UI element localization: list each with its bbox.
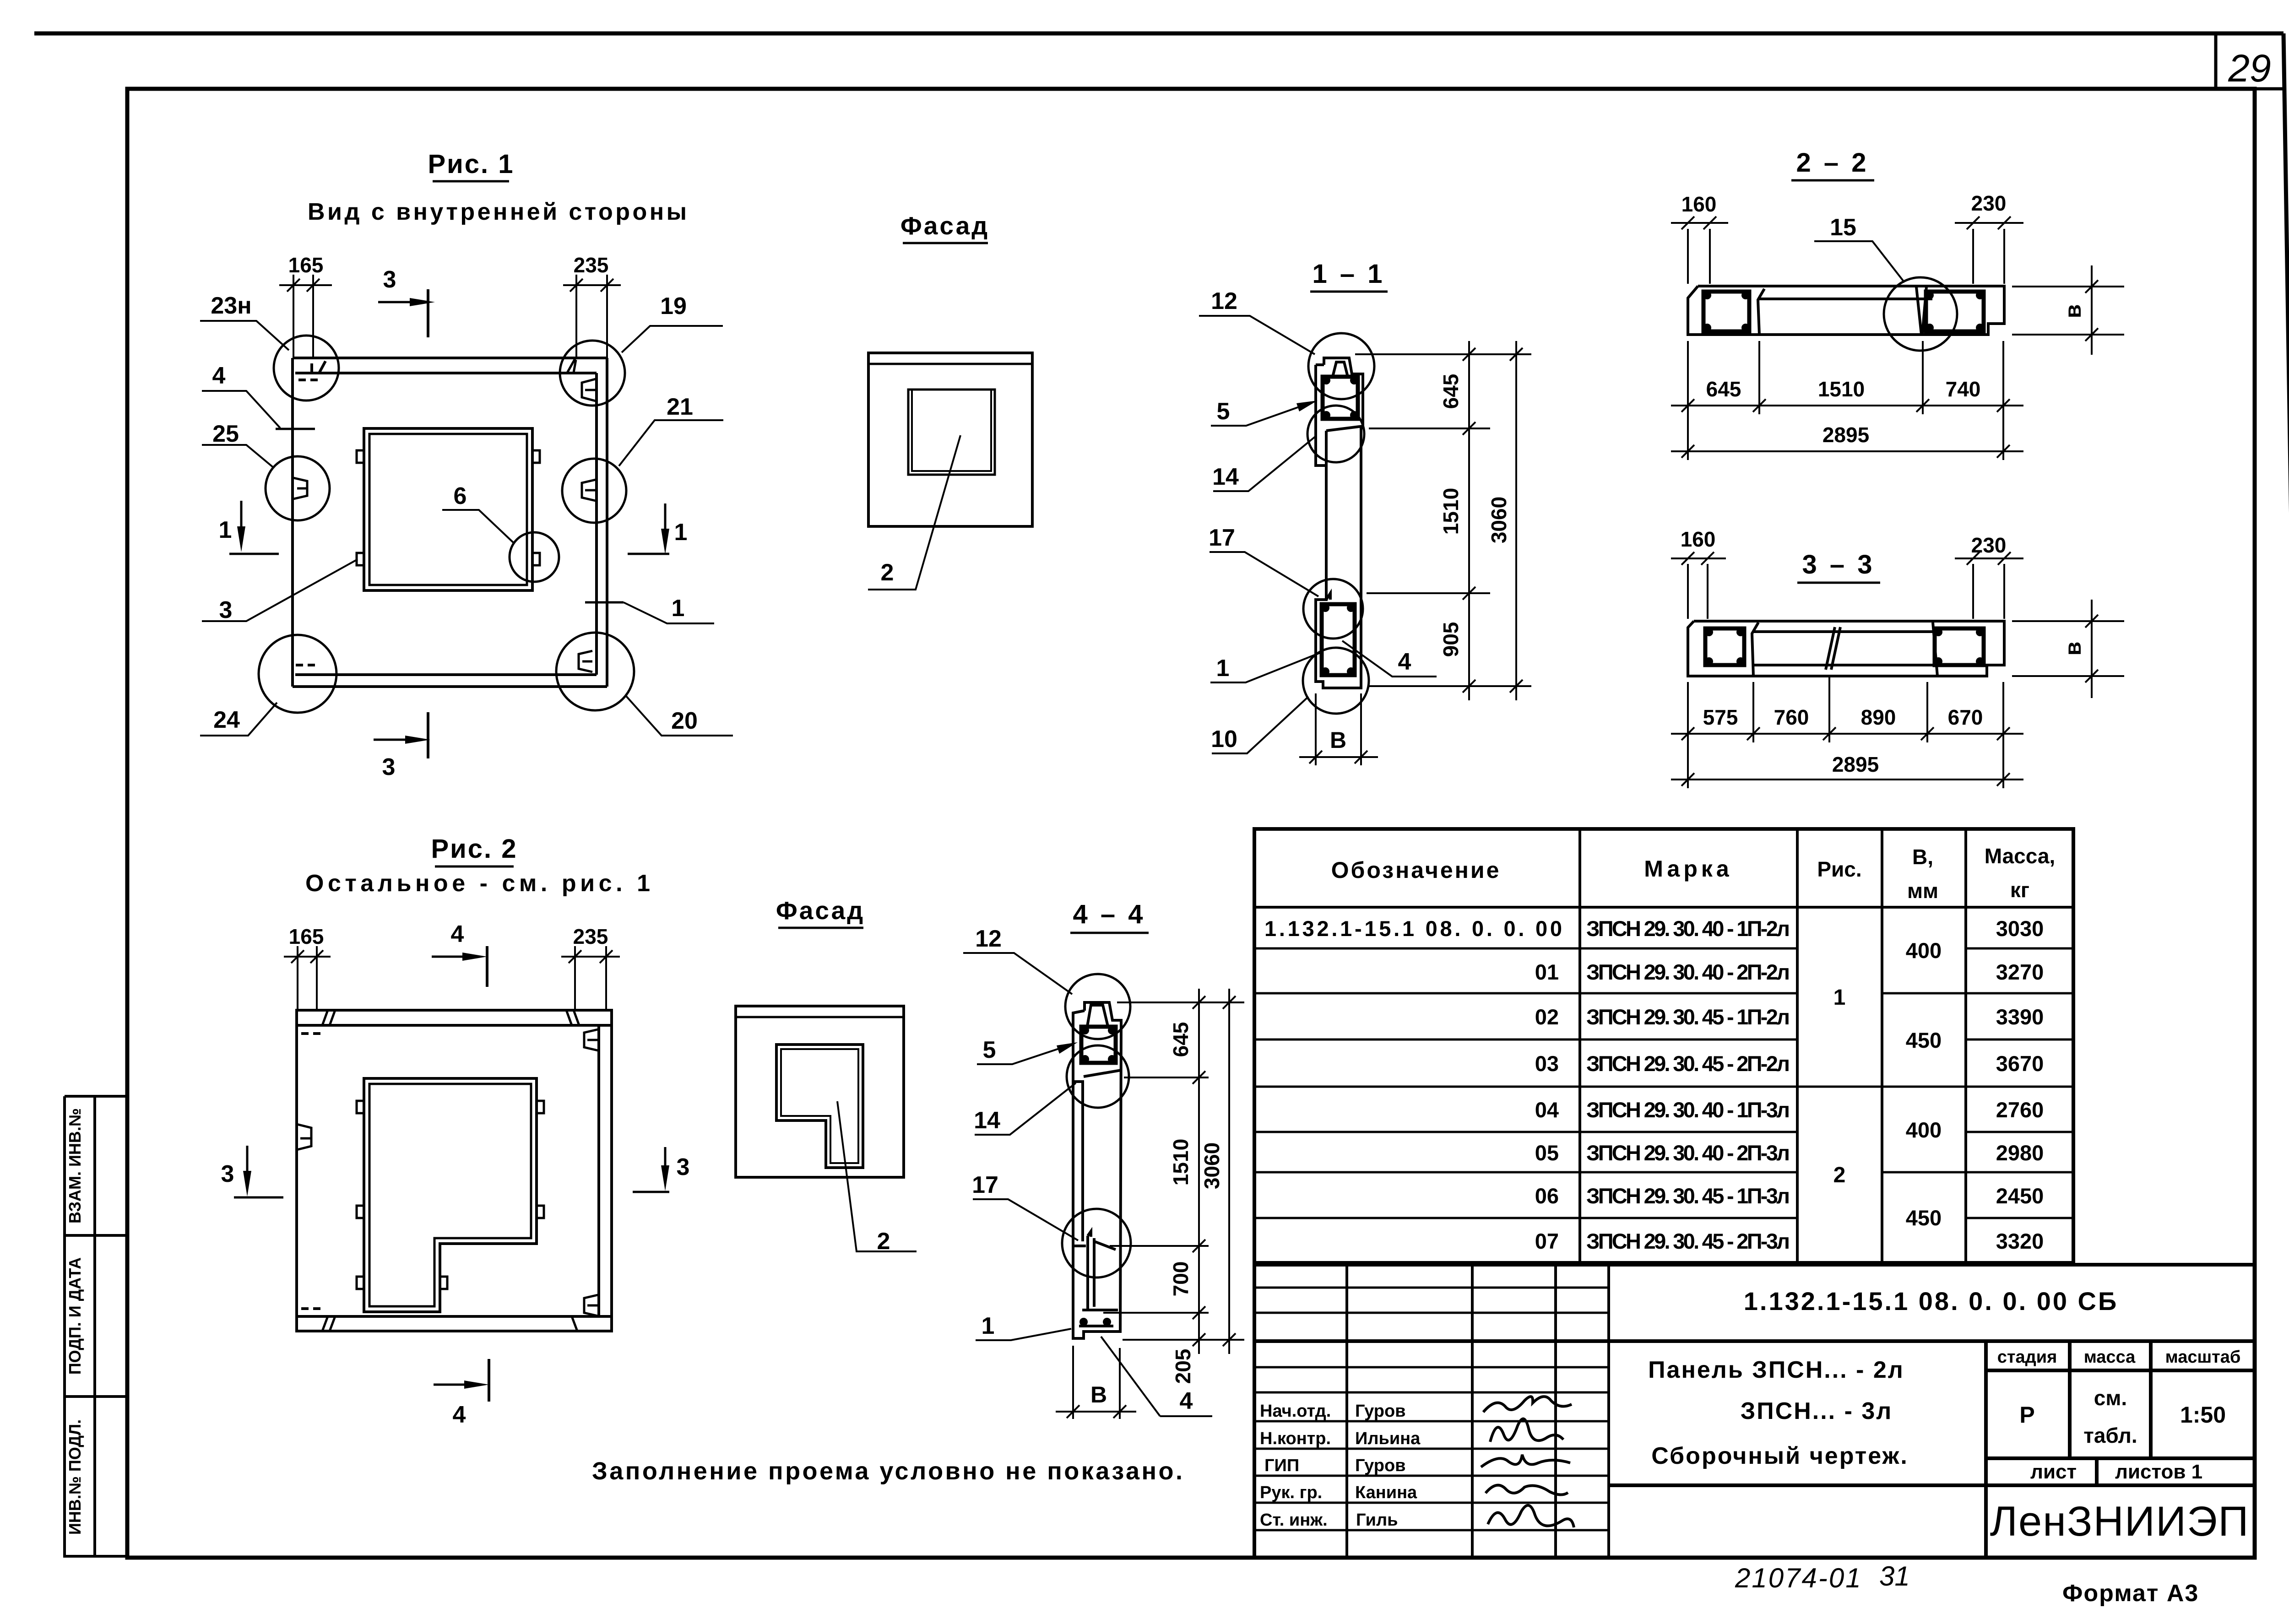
svg-text:230: 230 <box>1971 191 2007 215</box>
svg-text:700: 700 <box>1169 1261 1193 1297</box>
svg-text:В: В <box>1330 727 1346 753</box>
sheet number box <box>2216 33 2284 90</box>
fig1 bracket top-right <box>582 379 596 401</box>
table column lines <box>1254 829 2073 1263</box>
svg-text:04: 04 <box>1535 1098 1559 1122</box>
svg-text:19: 19 <box>660 293 687 319</box>
svg-text:3: 3 <box>221 1161 234 1187</box>
4-4 rebar cage <box>1081 1027 1116 1063</box>
svg-text:2760: 2760 <box>1996 1098 2044 1122</box>
svg-text:4: 4 <box>212 363 226 389</box>
fig1 dim 235 <box>563 275 621 358</box>
fig1 detail circle top-left <box>274 336 339 401</box>
2-2 lower dims <box>1671 341 2023 460</box>
fig2 bracket bottom-right <box>584 1295 598 1316</box>
title block left grid verticals <box>1347 1265 1609 1558</box>
2-2 dim 160 top <box>1671 217 1728 284</box>
svg-text:2 – 2: 2 – 2 <box>1796 148 1869 178</box>
fig1 corner weld marks top-right <box>567 359 576 374</box>
3-3 lower dims <box>1671 677 2023 788</box>
2-2 left rebar cage <box>1703 292 1749 331</box>
svg-text:ГИП: ГИП <box>1264 1456 1299 1475</box>
svg-text:23н: 23н <box>211 292 251 319</box>
3-3 left rebar cage <box>1705 628 1744 665</box>
1-1 detail circle upper-mid <box>1307 406 1364 462</box>
svg-text:17: 17 <box>972 1172 998 1198</box>
svg-text:15: 15 <box>1830 214 1856 241</box>
svg-text:3390: 3390 <box>1996 1005 2044 1029</box>
1-1 dim line inner <box>1468 341 1470 700</box>
page top edge <box>34 32 2284 36</box>
svg-text:3: 3 <box>382 754 396 780</box>
svg-text:стадия: стадия <box>1997 1348 2057 1367</box>
svg-text:Ст. инж.: Ст. инж. <box>1260 1510 1328 1530</box>
svg-text:2980: 2980 <box>1996 1141 2044 1165</box>
svg-text:760: 760 <box>1774 705 1809 729</box>
svg-text:3270: 3270 <box>1996 960 2044 984</box>
2-2 detail circle 15 <box>1884 277 1957 351</box>
fig1 bracket bottom-right <box>579 651 592 672</box>
2-2 dim в right <box>2012 265 2124 355</box>
fig2 dim 235 <box>561 946 620 1010</box>
1-1 dim В bottom <box>1299 693 1378 765</box>
svg-text:Фасад: Фасад <box>900 211 989 240</box>
svg-text:Гуров: Гуров <box>1355 1402 1406 1421</box>
fig1 detail circle mid-right <box>562 459 626 523</box>
signature 5 <box>1488 1505 1574 1527</box>
svg-text:1:50: 1:50 <box>2180 1402 2226 1428</box>
1-1 detail circle bottom <box>1303 648 1369 714</box>
fig1 dim 165 <box>279 275 332 358</box>
svg-text:890: 890 <box>1861 705 1896 729</box>
title block left grid horizontals <box>1254 1288 1609 1530</box>
fig2 L-shaped opening <box>364 1078 537 1312</box>
svg-text:5: 5 <box>983 1037 996 1063</box>
svg-text:1: 1 <box>672 595 685 622</box>
4-4 dim В bottom <box>1056 1346 1136 1419</box>
svg-text:12: 12 <box>1211 288 1237 314</box>
svg-text:3 – 3: 3 – 3 <box>1802 550 1875 579</box>
svg-text:ЗПСН 29. 30. 45 - 2П-2л: ЗПСН 29. 30. 45 - 2П-2л <box>1586 1051 1790 1076</box>
fig2 dim 165 <box>284 946 331 1010</box>
svg-text:ИНВ.№ ПОДЛ.: ИНВ.№ ПОДЛ. <box>65 1419 84 1535</box>
svg-text:01: 01 <box>1535 960 1559 984</box>
1-1 upper rebar cage <box>1323 377 1358 419</box>
svg-text:1: 1 <box>1833 985 1846 1010</box>
svg-text:4: 4 <box>1398 649 1411 675</box>
svg-text:450: 450 <box>1906 1206 1942 1230</box>
2-2 right rebar cage <box>1926 292 1984 331</box>
svg-text:5: 5 <box>1217 398 1230 425</box>
svg-text:Панель ЗПСН... - 2л: Панель ЗПСН... - 2л <box>1648 1357 1904 1383</box>
svg-text:235: 235 <box>574 253 609 277</box>
svg-text:21: 21 <box>667 394 693 420</box>
fig1 bracket mid-right <box>582 480 596 501</box>
svg-text:3060: 3060 <box>1487 497 1511 543</box>
fig1 bracket mid-left <box>293 478 307 499</box>
svg-text:ПОДП. И ДАТА: ПОДП. И ДАТА <box>65 1257 84 1375</box>
svg-text:1510: 1510 <box>1818 377 1865 401</box>
svg-text:Сборочный чертеж.: Сборочный чертеж. <box>1651 1443 1909 1469</box>
svg-text:ЗПСН 29. 30. 40 - 1П-2л: ЗПСН 29. 30. 40 - 1П-2л <box>1586 916 1790 941</box>
2-2 dim 230 top <box>1955 217 2023 284</box>
fig1 detail circle bottom-left <box>259 635 336 713</box>
signature 2 <box>1490 1419 1563 1442</box>
svg-text:ЗПСН 29. 30. 40 - 2П-2л: ЗПСН 29. 30. 40 - 2П-2л <box>1586 960 1790 984</box>
svg-text:160: 160 <box>1681 192 1717 216</box>
fig2 opening tabs left <box>357 1101 364 1113</box>
svg-text:4: 4 <box>451 921 464 947</box>
svg-text:Вид с внутренней стороны: Вид с внутренней стороны <box>308 199 687 225</box>
fig1 opening tab left-bottom <box>357 553 364 565</box>
3-3 body outline <box>1688 621 2004 676</box>
left stamp column <box>65 1096 127 1558</box>
svg-text:06: 06 <box>1535 1184 1559 1208</box>
svg-text:6: 6 <box>454 483 467 509</box>
svg-text:2895: 2895 <box>1832 752 1879 776</box>
svg-text:230: 230 <box>1971 533 2007 557</box>
svg-text:табл.: табл. <box>2083 1424 2137 1447</box>
4-4 foot rebar dots <box>1079 1318 1088 1326</box>
fig1 detail circle tab-6 <box>510 532 559 582</box>
svg-text:2895: 2895 <box>1823 423 1869 447</box>
svg-text:3: 3 <box>677 1154 690 1180</box>
svg-text:165: 165 <box>289 925 324 948</box>
svg-text:12: 12 <box>975 926 1002 952</box>
fig1 opening tab right-bottom <box>532 553 540 565</box>
svg-text:1510: 1510 <box>1439 488 1463 535</box>
svg-text:Гуров: Гуров <box>1355 1456 1406 1475</box>
fig1 detail circle mid-left <box>266 456 330 520</box>
svg-text:в: в <box>2060 642 2086 656</box>
svg-text:25: 25 <box>212 421 239 447</box>
svg-text:575: 575 <box>1703 705 1738 729</box>
fig2 bottom chamfer marks <box>322 1316 577 1331</box>
svg-text:1: 1 <box>219 517 232 543</box>
svg-text:В: В <box>1090 1382 1107 1407</box>
svg-text:1510: 1510 <box>1169 1139 1193 1186</box>
svg-text:лист: лист <box>2030 1461 2077 1483</box>
svg-text:Марка: Марка <box>1644 856 1732 882</box>
table border <box>1254 829 2073 1263</box>
svg-text:мм: мм <box>1907 879 1938 903</box>
fig2 dashed mark top-left <box>301 1032 320 1035</box>
fig2 top chamfer marks <box>322 1010 579 1025</box>
svg-text:масса: масса <box>2084 1348 2136 1367</box>
svg-text:Рис.: Рис. <box>1817 857 1861 881</box>
svg-text:20: 20 <box>671 708 698 734</box>
svg-text:1.132.1-15.1 08. 0. 0. 00 СБ: 1.132.1-15.1 08. 0. 0. 00 СБ <box>1744 1287 2119 1315</box>
svg-text:450: 450 <box>1906 1028 1942 1052</box>
svg-text:Гиль: Гиль <box>1356 1510 1398 1530</box>
svg-text:ЗПСН 29. 30. 40 - 2П-3л: ЗПСН 29. 30. 40 - 2П-3л <box>1586 1141 1790 1165</box>
fig1 dashed mark bottom-left <box>296 664 315 666</box>
svg-text:165: 165 <box>288 253 324 277</box>
svg-text:31: 31 <box>1879 1561 1910 1592</box>
svg-text:07: 07 <box>1535 1229 1559 1253</box>
1-1 detail circle top <box>1308 333 1374 399</box>
facade2 panel <box>736 1006 904 1177</box>
svg-text:03: 03 <box>1535 1051 1559 1076</box>
svg-text:3320: 3320 <box>1996 1229 2044 1253</box>
svg-text:ЗПСН 29. 30. 40 - 1П-3л: ЗПСН 29. 30. 40 - 1П-3л <box>1586 1098 1790 1122</box>
svg-text:1: 1 <box>1216 655 1230 682</box>
3-3 right rebar cage <box>1935 628 1984 665</box>
svg-text:21074-01: 21074-01 <box>1735 1563 1862 1593</box>
svg-text:4: 4 <box>1180 1388 1193 1414</box>
1-1 lower rebar cage <box>1322 604 1355 675</box>
svg-text:14: 14 <box>1212 464 1239 490</box>
svg-text:02: 02 <box>1535 1005 1559 1029</box>
fig2 dashed mark bottom-left <box>301 1307 320 1310</box>
fig2 bracket top-right <box>584 1029 598 1050</box>
спан lines <box>1797 1086 1882 1088</box>
svg-text:Н.контр.: Н.контр. <box>1260 1429 1331 1448</box>
svg-text:3: 3 <box>219 597 233 623</box>
1-1 detail circle lower-mid <box>1303 579 1363 639</box>
4-4 hat trapezoid <box>1087 1005 1108 1026</box>
svg-text:3670: 3670 <box>1996 1051 2044 1076</box>
svg-text:400: 400 <box>1906 938 1942 963</box>
svg-text:кг: кг <box>2010 878 2029 902</box>
svg-text:24: 24 <box>213 707 240 733</box>
svg-text:4: 4 <box>453 1402 466 1428</box>
title block main dividers <box>1254 1341 2255 1558</box>
svg-text:Ильина: Ильина <box>1355 1429 1421 1448</box>
svg-text:29: 29 <box>2228 47 2271 90</box>
svg-text:14: 14 <box>974 1107 1000 1134</box>
1-1 hat trapezoid <box>1333 362 1348 377</box>
svg-text:2: 2 <box>1833 1163 1846 1187</box>
svg-text:ЗПСН... - 3л: ЗПСН... - 3л <box>1741 1398 1893 1424</box>
fig2 opening tabs right <box>537 1101 544 1113</box>
svg-text:400: 400 <box>1906 1118 1942 1142</box>
4-4 extension lines <box>1103 989 1244 1354</box>
svg-text:Р: Р <box>2019 1402 2034 1428</box>
4-4 detail circle mid <box>1067 1045 1129 1108</box>
3-3 dim 160 top <box>1671 552 1726 619</box>
svg-text:740: 740 <box>1946 377 1981 401</box>
svg-text:ВЗАМ. ИНВ.№: ВЗАМ. ИНВ.№ <box>65 1108 84 1223</box>
svg-text:Рис. 2: Рис. 2 <box>431 834 517 864</box>
4-4 body outline <box>1073 1002 1121 1338</box>
svg-text:905: 905 <box>1439 622 1463 657</box>
signature 1 <box>1483 1397 1572 1412</box>
svg-text:В,: В, <box>1912 845 1933 869</box>
svg-text:160: 160 <box>1681 527 1716 551</box>
svg-text:ЗПСН 29. 30. 45 - 1П-2л: ЗПСН 29. 30. 45 - 1П-2л <box>1586 1005 1790 1029</box>
svg-text:1 – 1: 1 – 1 <box>1313 259 1385 289</box>
page right edge <box>2284 33 2289 1604</box>
fig2 left anchor tab <box>297 1124 311 1150</box>
svg-text:Нач.отд.: Нач.отд. <box>1260 1402 1331 1421</box>
svg-text:листов 1: листов 1 <box>2115 1461 2202 1483</box>
svg-text:Рис. 1: Рис. 1 <box>428 149 514 179</box>
fig1 central opening <box>364 428 532 590</box>
table row lines col1+col2+col5 <box>1254 948 2073 1218</box>
1-1 body outline <box>1316 358 1363 688</box>
fig1 corner weld marks top-left <box>312 361 325 373</box>
svg-text:2450: 2450 <box>1996 1184 2044 1208</box>
1-1 dim line outer 3060 <box>1515 341 1517 700</box>
4-4 detail circle low <box>1062 1209 1131 1278</box>
svg-text:см.: см. <box>2094 1386 2127 1410</box>
svg-text:масштаб: масштаб <box>2165 1348 2241 1367</box>
signature 4 <box>1486 1485 1568 1495</box>
fig2 panel outline <box>297 1010 612 1331</box>
svg-text:ЗПСН 29. 30. 45 - 2П-3л: ЗПСН 29. 30. 45 - 2П-3л <box>1586 1229 1790 1253</box>
svg-text:Обозначение: Обозначение <box>1331 857 1501 883</box>
svg-text:645: 645 <box>1169 1022 1193 1057</box>
svg-text:205: 205 <box>1171 1349 1195 1384</box>
svg-text:1: 1 <box>982 1313 995 1339</box>
4-4 detail circle top <box>1065 974 1130 1039</box>
svg-text:645: 645 <box>1439 374 1463 409</box>
fig1 detail circle bottom-right <box>556 633 634 710</box>
svg-text:2: 2 <box>881 559 894 586</box>
facade1 opening <box>908 390 995 475</box>
2-2 body outline <box>1688 286 2004 335</box>
svg-text:645: 645 <box>1706 377 1741 401</box>
fig1 opening tab left-top <box>357 450 364 463</box>
title block frame <box>1254 1265 2255 1558</box>
fig1 dashed mark top-left <box>298 379 318 381</box>
svg-text:ЛенЗНИИЭП: ЛенЗНИИЭП <box>1990 1498 2250 1545</box>
svg-text:3060: 3060 <box>1200 1142 1224 1189</box>
1-1 extension lines <box>1355 341 1531 700</box>
svg-text:235: 235 <box>573 925 608 948</box>
fig1 detail circle top-right <box>560 341 625 406</box>
svg-text:3: 3 <box>383 266 396 293</box>
facade2 L opening <box>776 1045 863 1168</box>
svg-text:10: 10 <box>1211 726 1237 752</box>
svg-text:в: в <box>2060 304 2086 319</box>
svg-text:Рук. гр.: Рук. гр. <box>1260 1483 1322 1502</box>
svg-text:670: 670 <box>1948 705 1983 729</box>
svg-text:05: 05 <box>1535 1141 1559 1165</box>
svg-text:3030: 3030 <box>1996 916 2044 941</box>
svg-text:Фасад: Фасад <box>776 896 865 925</box>
facade1 panel <box>868 353 1032 526</box>
signature 3 <box>1481 1455 1570 1467</box>
3-3 dim 230 top <box>1955 552 2023 619</box>
3-3 dim в right <box>2012 600 2124 698</box>
svg-text:17: 17 <box>1209 525 1235 551</box>
fig1 opening tab right-top <box>532 450 540 463</box>
svg-text:Формат А3: Формат А3 <box>2062 1580 2199 1607</box>
svg-text:4 – 4: 4 – 4 <box>1073 899 1146 929</box>
svg-text:ЗПСН 29. 30. 45 - 1П-3л: ЗПСН 29. 30. 45 - 1П-3л <box>1586 1184 1790 1208</box>
svg-text:1: 1 <box>674 519 688 546</box>
svg-text:Масса,: Масса, <box>1985 844 2056 868</box>
fig1 panel outer contour <box>293 358 607 687</box>
svg-text:Канина: Канина <box>1355 1483 1417 1502</box>
